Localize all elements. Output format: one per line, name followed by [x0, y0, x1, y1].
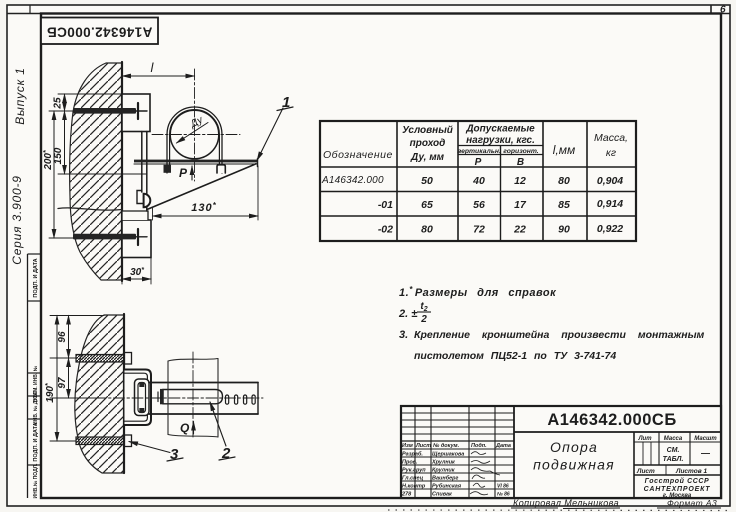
svg-text:Спивак: Спивак	[432, 492, 453, 498]
svg-text:Серия 3.900-9: Серия 3.900-9	[10, 175, 24, 265]
U-bolt legs	[166, 135, 168, 174]
svg-text:Q: Q	[180, 421, 190, 435]
band vertical centerline	[192, 352, 194, 438]
channel bracket outer	[125, 370, 152, 426]
pipe vertical centerline	[194, 69, 196, 181]
svg-text:Изм: Изм	[402, 443, 413, 449]
signature rows lines	[401, 448, 514, 450]
dimension l	[122, 75, 195, 77]
band bottom break line	[168, 435, 218, 438]
svg-text:Хрулник: Хрулник	[431, 460, 456, 466]
svg-text:Разраб.: Разраб.	[402, 451, 423, 458]
svg-text:80: 80	[558, 175, 570, 187]
svg-text:ИНВ.№ ПОДЛ.: ИНВ.№ ПОДЛ.	[33, 463, 39, 499]
svg-text:278: 278	[401, 492, 412, 498]
row Лист Листов	[665, 465, 667, 475]
svg-text:17: 17	[514, 199, 527, 211]
dimension 200*	[53, 111, 55, 238]
band top break line	[168, 359, 218, 362]
bottom anchor stud (lower view)	[76, 437, 128, 445]
vertical pipe band right edge	[217, 359, 219, 438]
scan noise dots bottom edge	[388, 509, 732, 512]
svg-text:Масса,: Масса,	[594, 132, 628, 144]
svg-text:вертикальн.: вертикальн.	[457, 148, 501, 155]
table header bottom line	[320, 166, 636, 168]
dimension 130*	[153, 215, 259, 217]
svg-text:проход: проход	[410, 138, 446, 149]
bottom mounting plate	[122, 220, 151, 258]
load arrow Q	[193, 422, 195, 435]
svg-text:Дата: Дата	[495, 443, 511, 449]
svg-text:2. ±: 2. ±	[398, 308, 417, 320]
Ду diameter leader	[177, 123, 209, 144]
guide rod bottom edge	[149, 413, 258, 415]
dimension 150	[64, 111, 66, 174]
svg-text:40: 40	[472, 175, 485, 187]
pipe horizontal centerline	[152, 134, 240, 136]
svg-text:VI 86: VI 86	[497, 484, 509, 490]
U-bolt left nut	[164, 165, 172, 173]
U-bolt right nut	[217, 165, 225, 173]
svg-text:P: P	[179, 166, 188, 180]
svg-text:Крепление кронштейна произвест: Крепление кронштейна произвести монтажны…	[414, 329, 705, 341]
leader 2	[210, 402, 226, 446]
svg-text:А146342.000СБ: А146342.000СБ	[547, 411, 676, 429]
svg-text:Рук.груп: Рук.груп	[402, 468, 426, 474]
svg-text:65: 65	[421, 199, 433, 211]
svg-text:ПОДП. И ДАТА: ПОДП. И ДАТА	[33, 422, 39, 461]
U-bolt clamp arcs	[167, 107, 222, 135]
svg-text:56: 56	[473, 199, 485, 211]
load arrow P	[191, 166, 193, 180]
svg-text:Пров.: Пров.	[402, 460, 418, 466]
wall face line (lower view)	[123, 314, 125, 473]
svg-text:—: —	[701, 448, 710, 458]
rod horizontal centerline	[95, 397, 263, 399]
pipe circle	[170, 110, 219, 159]
extension line wall top (lower)	[50, 315, 104, 317]
svg-text:Рубинская: Рубинская	[432, 483, 462, 490]
extension line centerline	[50, 397, 95, 399]
svg-text:72: 72	[473, 224, 485, 236]
svg-text:90: 90	[558, 224, 570, 236]
bottom margin underlines	[511, 507, 558, 509]
right section rows	[634, 441, 721, 443]
svg-text:-01: -01	[378, 199, 393, 211]
svg-text:0,904: 0,904	[597, 175, 623, 187]
title block outer frame	[401, 406, 721, 498]
svg-text:12: 12	[514, 175, 526, 187]
svg-text:САНТЕХПРОЕКТ: САНТЕХПРОЕКТ	[644, 486, 711, 493]
top strip divider tick	[710, 5, 712, 14]
svg-text:Копировал Мельникова: Копировал Мельникова	[513, 498, 619, 508]
svg-text:3.: 3.	[399, 329, 408, 341]
svg-text:85: 85	[558, 199, 570, 211]
leader 3	[129, 442, 170, 453]
svg-text:В: В	[517, 157, 524, 168]
svg-text:2: 2	[420, 314, 427, 325]
svg-text:22: 22	[513, 224, 526, 236]
load table outer frame	[320, 121, 636, 241]
upside-down stamp box	[41, 18, 158, 45]
svg-text:Опора: Опора	[550, 439, 598, 455]
inner tube left cap	[160, 389, 164, 404]
diagonal brace	[147, 164, 256, 210]
Лит Масса Масштаб dividers	[658, 432, 660, 465]
svg-text:l,мм: l,мм	[553, 143, 575, 157]
table row lines	[320, 191, 636, 193]
svg-text:Масса: Масса	[664, 436, 683, 442]
svg-text:Лист: Лист	[415, 443, 431, 449]
svg-text:Масшт: Масшт	[694, 436, 717, 442]
top anchor stud (lower view)	[76, 355, 128, 363]
svg-text:Ваинберг: Ваинберг	[432, 475, 459, 482]
sub-header band lines	[458, 145, 543, 147]
left margin cell dividers	[28, 253, 42, 255]
wall face line (upper view)	[121, 62, 123, 281]
top strip left tick	[29, 5, 31, 14]
svg-text:96: 96	[57, 331, 68, 343]
svg-text:Листов 1: Листов 1	[675, 468, 707, 475]
svg-text:А146342.000СБ: А146342.000СБ	[47, 24, 153, 39]
guide rod end cap	[257, 383, 259, 415]
svg-text:Р: Р	[475, 157, 482, 168]
svg-text:Лист: Лист	[636, 468, 655, 475]
svg-text:Лит: Лит	[637, 436, 652, 442]
table column lines	[396, 121, 398, 241]
svg-text:-02: -02	[378, 224, 393, 236]
svg-text:нагрузки, кгс.: нагрузки, кгс.	[466, 135, 535, 146]
slider plate outer	[135, 379, 150, 416]
extension line 150 bottom	[58, 173, 146, 175]
bracket bottom hook	[137, 191, 143, 204]
svg-text:Допускаемые: Допускаемые	[465, 124, 535, 135]
svg-text:1.*Размеры для справок: 1.*Размеры для справок	[399, 285, 557, 299]
extension line bottom bolt	[49, 237, 74, 239]
signature table upper narrow rows	[401, 412, 514, 414]
bottom plate tab	[122, 211, 148, 220]
svg-text:подвижная: подвижная	[533, 457, 615, 473]
inner tube	[163, 390, 223, 404]
svg-text:Условный: Условный	[402, 125, 453, 136]
extension line plate top	[58, 93, 122, 95]
dimension 30*	[122, 278, 151, 280]
svg-text:Щершакова: Щершакова	[432, 452, 464, 458]
svg-text:СМ.: СМ.	[667, 447, 680, 454]
svg-text:А146342.000: А146342.000	[321, 175, 384, 186]
svg-text:№ докум.: № докум.	[433, 443, 460, 449]
right section divider	[633, 432, 635, 498]
top anchor bolt	[73, 108, 136, 114]
svg-text:Гл.спец: Гл.спец	[402, 476, 424, 482]
wall break wavy line	[58, 208, 122, 210]
designation cell line	[513, 406, 515, 498]
shelf top flange	[134, 160, 258, 163]
dimension 25	[64, 94, 66, 111]
svg-text:Обозначение: Обозначение	[323, 149, 393, 161]
signature table verticals	[414, 406, 416, 498]
bottom anchor bolt	[73, 234, 136, 240]
svg-text:150: 150	[53, 147, 64, 164]
bracket weld D detail	[144, 194, 151, 207]
svg-text:Выпуск 1: Выпуск 1	[13, 67, 27, 125]
svg-text:пистолетом ПЦ52-1 по ТУ 3-741-: пистолетом ПЦ52-1 по ТУ 3-741-74	[414, 350, 616, 362]
svg-text:Подп.: Подп.	[471, 443, 487, 449]
svg-text:25: 25	[53, 97, 64, 110]
svg-text:Госстрой СССР: Госстрой СССР	[645, 477, 710, 485]
wall section (lower view, hatched)	[75, 315, 124, 473]
top strip line	[7, 13, 730, 15]
dimension 97	[68, 358, 70, 398]
svg-text:кг: кг	[606, 147, 616, 159]
svg-text:№ 86: № 86	[497, 492, 510, 498]
svg-text:горизонт.: горизонт.	[503, 148, 539, 155]
channel bracket inner	[125, 373, 148, 421]
slot dashes on rod	[226, 395, 229, 404]
extension line top bolt	[49, 110, 74, 112]
svg-text:97: 97	[57, 377, 68, 389]
svg-text:ТАБЛ.: ТАБЛ.	[663, 456, 684, 463]
svg-text:80: 80	[421, 224, 433, 236]
dimension 190*	[56, 316, 58, 442]
slider slot inner	[138, 383, 146, 413]
svg-text:0,914: 0,914	[597, 198, 623, 210]
svg-text:Крулник: Крулник	[432, 468, 456, 474]
svg-text:ПОДП. И ДАТА: ПОДП. И ДАТА	[33, 258, 39, 297]
svg-text:Н.контр: Н.контр	[402, 484, 426, 490]
left margin column line	[27, 254, 29, 498]
top mounting plate	[122, 94, 150, 132]
guide rod top edge	[149, 382, 258, 384]
svg-text:Формат А3: Формат А3	[667, 498, 717, 508]
bracket vertical plate	[141, 132, 143, 193]
svg-text:ИНВ. № ДУБЛ.: ИНВ. № ДУБЛ.	[33, 389, 39, 425]
wall section (upper view, hatched)	[70, 63, 122, 280]
svg-text:50: 50	[421, 175, 433, 187]
dimension 96	[68, 316, 70, 359]
svg-text:Ду, мм: Ду, мм	[410, 152, 445, 163]
extension line top stud	[50, 357, 76, 359]
extension line bottom stud	[50, 440, 76, 442]
svg-text:0,922: 0,922	[597, 223, 623, 235]
svg-text:г. Москва: г. Москва	[663, 493, 692, 499]
slot dark ends	[139, 382, 144, 387]
vertical pipe band left edge	[167, 361, 169, 435]
leader 1	[257, 108, 283, 161]
